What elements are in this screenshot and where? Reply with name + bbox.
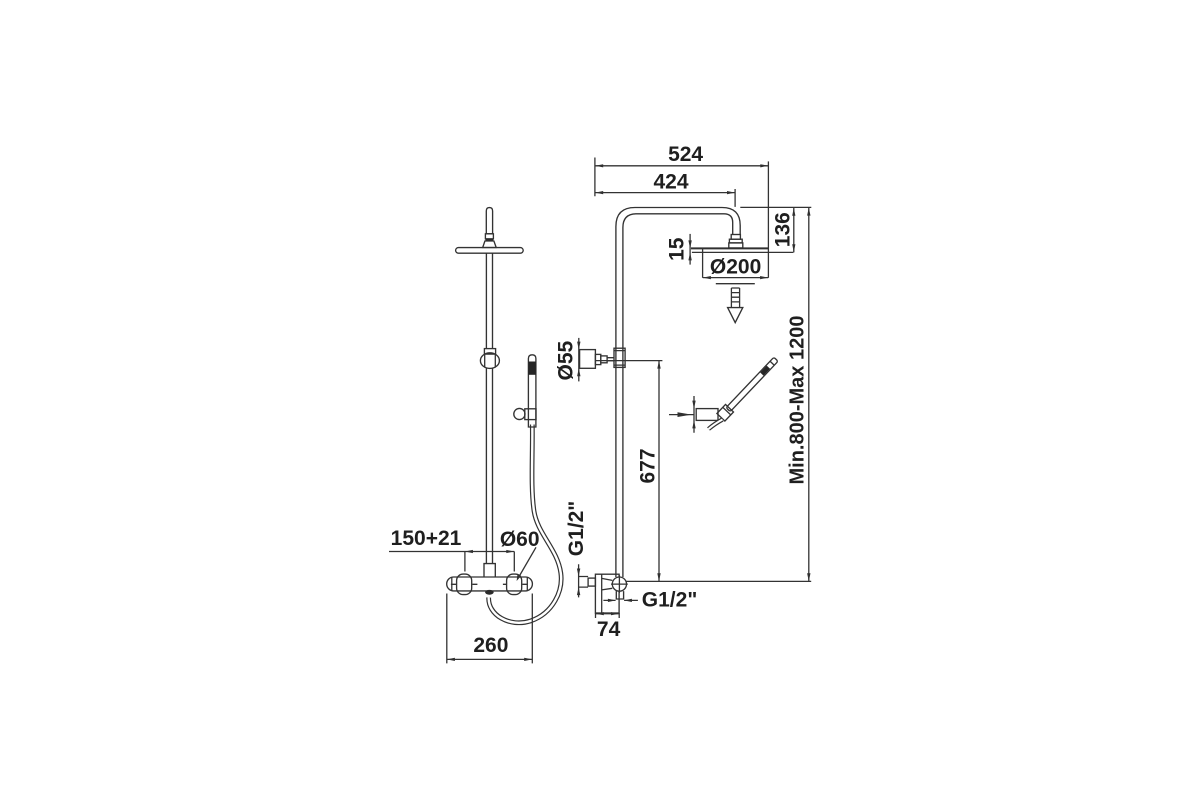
svg-text:G1/2": G1/2"	[565, 501, 588, 556]
mixer body (front)	[447, 577, 533, 591]
svg-text:Min.800-Max 1200: Min.800-Max 1200	[787, 316, 809, 485]
wand holder knob	[514, 408, 525, 419]
gasket band	[485, 239, 493, 241]
dimension 74	[596, 612, 621, 641]
mixer body (side)	[595, 574, 619, 613]
dimension 524	[595, 143, 769, 196]
dimension Min.800-Max 1200	[787, 208, 811, 582]
left knob	[457, 574, 472, 595]
riser connection circle	[611, 575, 628, 593]
slider centerline	[595, 360, 662, 362]
wand holder bracket	[525, 409, 536, 420]
dimension 260	[447, 594, 533, 664]
mixer wedge	[602, 578, 613, 590]
dimension 424	[595, 171, 735, 207]
supply nipple (side)	[588, 578, 595, 586]
svg-text:424: 424	[653, 171, 688, 194]
svg-text:524: 524	[668, 143, 703, 166]
head nut upper	[731, 235, 740, 240]
svg-text:Ø55: Ø55	[555, 340, 578, 380]
shower head (side) top	[691, 247, 769, 249]
hose connector dot	[485, 590, 494, 595]
dimension 136	[740, 207, 811, 252]
dimension Ø200	[703, 255, 768, 279]
riser pipe with top bend (inner)	[623, 214, 733, 577]
svg-text:260: 260	[473, 634, 508, 657]
head left edge	[702, 248, 704, 277]
cone	[483, 241, 497, 248]
hand shower holder (side)	[696, 409, 718, 421]
head nut base	[729, 243, 743, 248]
shower head (front)	[456, 248, 524, 254]
flow arrow	[728, 288, 743, 323]
svg-text:136: 136	[772, 212, 795, 247]
head right extension line	[767, 161, 769, 277]
slider clamp	[614, 348, 625, 367]
holder cross dim	[669, 396, 696, 433]
slider collar	[595, 354, 600, 364]
dimension 677	[637, 361, 661, 582]
svg-text:Ø200: Ø200	[710, 255, 761, 278]
label Ø60	[500, 528, 540, 581]
bottom outlet stub	[616, 591, 623, 599]
riser pipe with top bend (outer)	[616, 208, 740, 578]
slider neck	[601, 356, 607, 363]
svg-text:G1/2": G1/2"	[642, 588, 697, 611]
dimension 150+21	[389, 527, 514, 572]
dimension Ø55	[555, 338, 581, 382]
wand grip band	[528, 362, 536, 375]
ball joint	[480, 353, 499, 369]
bottom reference line	[620, 580, 811, 582]
svg-text:677: 677	[637, 448, 660, 483]
slider wall plate	[580, 350, 596, 369]
bottom collar	[484, 564, 495, 577]
shower head (side) bottom	[692, 251, 794, 253]
hand shower wand (front)	[528, 355, 536, 427]
riser pipe lower (front)	[486, 368, 492, 563]
hose stub (side)	[709, 420, 723, 430]
dimension G1/2 left	[565, 501, 588, 598]
slider shaft	[607, 358, 614, 361]
center marks	[451, 583, 528, 585]
dimension 15	[666, 234, 692, 265]
riser pipe upper (front)	[486, 253, 492, 349]
flow underline	[716, 283, 755, 285]
svg-text:150+21: 150+21	[391, 527, 462, 550]
svg-text:74: 74	[597, 618, 621, 641]
dimension G1/2 bottom	[603, 588, 697, 611]
ball joint collar	[484, 349, 495, 355]
top nut	[485, 234, 493, 239]
hand shower wand (side)	[717, 355, 780, 421]
top stub	[486, 208, 492, 234]
svg-text:Ø60: Ø60	[500, 528, 540, 551]
head nut lower	[729, 239, 742, 243]
right knob	[507, 574, 522, 595]
svg-text:15: 15	[666, 237, 689, 261]
hose	[489, 425, 561, 623]
